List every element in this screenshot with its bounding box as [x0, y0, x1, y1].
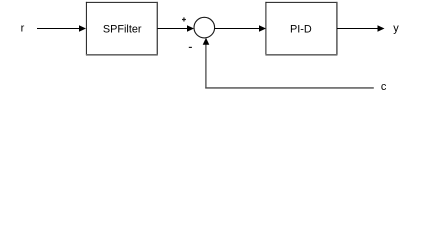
- arrowhead at y output: [378, 25, 385, 32]
- svg-text:c: c: [381, 81, 387, 93]
- arrowhead into summing junction: [187, 25, 194, 32]
- wire SPFilter to summing junction: [157, 28, 187, 30]
- wire summing junction to PI-D: [215, 28, 260, 30]
- svg-text:PI-D: PI-D: [290, 23, 312, 35]
- block SPFilter: [86, 2, 158, 55]
- svg-text:y: y: [393, 23, 399, 35]
- feedback wire horizontal from c: [205, 87, 373, 89]
- arrowhead into PI-D: [259, 25, 266, 32]
- plus sign label: [182, 17, 186, 21]
- wire PI-D to y: [337, 28, 378, 30]
- summing junction: [194, 17, 215, 38]
- feedback wire vertical: [205, 45, 207, 89]
- svg-text:r: r: [21, 22, 25, 34]
- arrowhead into SPFilter: [79, 25, 86, 32]
- wire r to SPFilter: [37, 28, 80, 30]
- svg-text:SPFilter: SPFilter: [103, 23, 142, 35]
- minus sign label: [189, 46, 192, 48]
- block PI-D: [265, 2, 337, 55]
- arrowhead into summing junction bottom: [203, 38, 210, 45]
